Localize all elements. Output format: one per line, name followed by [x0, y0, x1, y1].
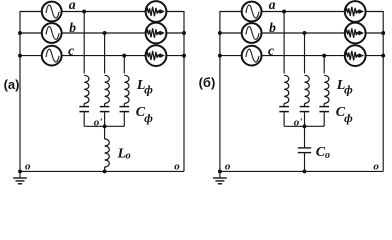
junction: left bus phase b (panel b) [218, 31, 222, 35]
inductor Lo (panel a) [105, 126, 110, 171]
wire: o-prime bus (panel a) [84, 125, 124, 127]
capacitor Cf3 (panel a) [120, 107, 130, 112]
wire: Cf1 to o-prime bus (panel b) [283, 112, 285, 126]
ground symbol (panel b) [213, 171, 227, 183]
wire: Cf2 to o-prime bus (panel a) [104, 112, 106, 126]
wire: dropper phase a to filter (panel a) [83, 12, 85, 74]
nonlinear load phase c (panel a) [146, 45, 167, 66]
svg-text:o: o [126, 150, 131, 161]
inductor Lf1 (panel a) [84, 75, 89, 103]
wire: dropper phase b to filter (panel b) [304, 33, 306, 73]
junction: neutral centre tap (panel b) [303, 169, 307, 173]
svg-text:(а): (а) [4, 77, 20, 92]
svg-text:o: o [25, 160, 31, 172]
nonlinear load phase b (panel b) [345, 23, 366, 44]
svg-text:c: c [268, 43, 274, 58]
svg-text:o: o [373, 160, 379, 172]
wire: right load bus (panel a) [183, 11, 185, 171]
svg-text:(б): (б) [199, 75, 216, 90]
capacitor Cf3 (panel b) [319, 107, 329, 112]
junction: phase c dropper (panel b) [322, 54, 326, 58]
junction: node o-prime (panel a) [103, 124, 107, 128]
junction: neutral at left bus (panel b) [218, 169, 222, 173]
wire: phase a line (panel b) [220, 11, 383, 13]
wire: neutral line o (panel a) [20, 170, 184, 172]
svg-text:a: a [269, 0, 276, 12]
nonlinear load phase b (panel a) [146, 23, 167, 44]
svg-text:o': o' [294, 117, 303, 129]
wire: dropper phase a to filter (panel b) [283, 12, 285, 74]
junction: phase c dropper (panel a) [122, 54, 126, 58]
AC source phase a (panel a) [42, 2, 62, 22]
capacitor Cf1 (panel b) [279, 107, 289, 112]
junction: right bus phase c (panel b) [381, 54, 385, 58]
AC source phase b (panel b) [242, 23, 262, 43]
capacitor Cf2 (panel b) [300, 107, 310, 112]
svg-text:ф: ф [344, 83, 353, 97]
wire: dropper phase c to filter (panel b) [323, 56, 325, 74]
svg-text:ф: ф [144, 111, 153, 125]
wire: Cf3 to o-prime bus (panel a) [123, 112, 125, 126]
junction: node o-prime (panel b) [303, 124, 307, 128]
wire: phase c line (panel a) [20, 55, 184, 57]
junction: right bus phase b (panel a) [182, 31, 186, 35]
capacitor Cf2 (panel a) [100, 107, 110, 112]
capacitor Cf1 (panel a) [79, 107, 89, 112]
wire: dropper phase b to filter (panel a) [104, 33, 106, 73]
wire: Cf2 to o-prime bus (panel b) [304, 112, 306, 126]
inductor Lf3 (panel b) [324, 75, 329, 103]
junction: phase b dropper (panel b) [303, 31, 307, 35]
svg-text:a: a [69, 0, 76, 12]
wire: dropper phase c to filter (panel a) [123, 56, 125, 74]
junction: neutral at left bus (panel a) [18, 169, 22, 173]
junction: left bus phase c (panel a) [18, 54, 22, 58]
capacitor Co (panel b) [298, 126, 311, 171]
AC source phase c (panel b) [242, 46, 262, 66]
inductor Lf2 (panel b) [305, 75, 310, 103]
nonlinear load phase a (panel a) [146, 1, 167, 22]
inductor Lf2 (panel a) [105, 75, 110, 103]
AC source phase c (panel a) [42, 46, 62, 66]
junction: left bus phase b (panel a) [18, 31, 22, 35]
junction: left bus phase c (panel b) [218, 54, 222, 58]
junction: right bus phase c (panel a) [182, 54, 186, 58]
svg-text:b: b [69, 20, 76, 35]
wire: Cf1 to o-prime bus (panel a) [83, 112, 85, 126]
wire: phase c line (panel b) [220, 55, 383, 57]
svg-text:ф: ф [344, 111, 353, 125]
wire: Cf3 to o-prime bus (panel b) [323, 112, 325, 126]
wire: right load bus (panel b) [382, 11, 384, 171]
wire: left source bus (panel b) [219, 11, 221, 171]
AC source phase b (panel a) [42, 23, 62, 43]
wire: o-prime bus (panel b) [284, 125, 324, 127]
wire: phase b line (panel b) [220, 32, 383, 34]
svg-text:ф: ф [144, 83, 153, 97]
junction: neutral centre tap (panel a) [103, 169, 107, 173]
svg-text:c: c [68, 43, 74, 58]
junction: phase b dropper (panel a) [103, 31, 107, 35]
svg-text:o': o' [94, 117, 103, 129]
junction: phase a dropper (panel b) [282, 10, 286, 14]
nonlinear load phase a (panel b) [345, 1, 366, 22]
wire: neutral line o (panel b) [220, 170, 383, 172]
junction: phase a dropper (panel a) [82, 10, 86, 14]
svg-text:b: b [269, 20, 276, 35]
svg-text:o: o [325, 150, 330, 161]
inductor Lf3 (panel a) [124, 75, 129, 103]
junction: right bus phase b (panel b) [381, 31, 385, 35]
nonlinear load phase c (panel b) [345, 45, 366, 66]
inductor Lf1 (panel b) [284, 75, 289, 103]
svg-text:o: o [225, 160, 231, 172]
wire: phase b line (panel a) [20, 32, 184, 34]
wire: left source bus (panel a) [19, 11, 21, 171]
wire: phase a line (panel a) [20, 11, 184, 13]
AC source phase a (panel b) [242, 2, 262, 22]
ground symbol (panel a) [13, 171, 27, 183]
svg-text:o: o [174, 160, 180, 172]
